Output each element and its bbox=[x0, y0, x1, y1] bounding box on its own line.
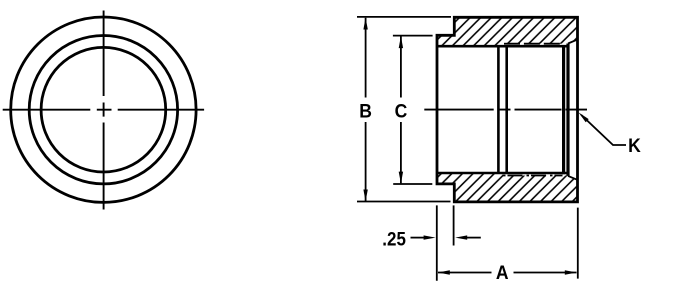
K arrow bbox=[579, 112, 589, 122]
middle circle (step OD) bbox=[29, 36, 177, 184]
A extension line left bbox=[436, 205, 438, 280]
thread crest dashed bottom bbox=[503, 175, 563, 177]
.25 arrow right bbox=[455, 235, 467, 239]
svg-text:C: C bbox=[395, 99, 408, 121]
shoulder line 1 bbox=[497, 46, 500, 173]
hatch bottom wall bbox=[437, 173, 578, 202]
C extension line top bbox=[393, 35, 433, 37]
K leader line bbox=[581, 115, 626, 145]
chamfer top bbox=[568, 39, 578, 43]
bore line bottom bbox=[437, 172, 567, 175]
C arrow top bbox=[399, 36, 403, 48]
vertical centerline bbox=[103, 11, 105, 210]
.25 leader right bbox=[467, 237, 481, 239]
chamfer bottom bbox=[568, 176, 578, 180]
thread end line 2 bbox=[566, 44, 569, 176]
C arrow bottom bbox=[399, 172, 403, 184]
svg-text:B: B bbox=[359, 99, 372, 121]
C extension line bottom bbox=[393, 183, 432, 185]
.25 arrow left bbox=[424, 235, 436, 239]
C dimension line bbox=[400, 36, 402, 183]
B dimension line bbox=[365, 18, 367, 202]
shoulder line 2 bbox=[505, 46, 508, 173]
.25 extension line right bbox=[453, 205, 455, 245]
svg-text:.25: .25 bbox=[382, 227, 406, 249]
A extension line right bbox=[577, 208, 579, 279]
outer profile outline bbox=[437, 17, 578, 202]
A arrow right bbox=[565, 270, 577, 274]
B extension line top bbox=[357, 16, 451, 18]
B extension line bottom bbox=[357, 201, 451, 203]
B arrow top bbox=[363, 18, 367, 30]
horizontal centerline bbox=[3, 109, 204, 111]
inner circle (bore) bbox=[41, 47, 166, 172]
A arrow left bbox=[438, 270, 450, 274]
svg-text:A: A bbox=[496, 261, 509, 283]
section centerline bbox=[424, 109, 587, 111]
svg-text:K: K bbox=[628, 134, 641, 156]
bore line top bbox=[437, 45, 567, 48]
thread end line 1 bbox=[562, 45, 565, 174]
thread crest dashed top bbox=[504, 43, 563, 45]
outer circle (OD) bbox=[11, 17, 196, 202]
.25 leader left bbox=[411, 237, 425, 239]
hatch top wall bbox=[437, 17, 578, 46]
A dimension line bbox=[438, 272, 577, 274]
B arrow bottom bbox=[363, 190, 367, 202]
